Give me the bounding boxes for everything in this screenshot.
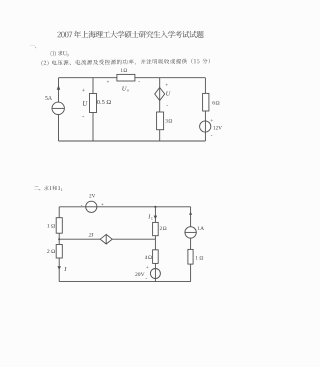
svg-text:-: - xyxy=(82,113,84,120)
svg-text:1A: 1A xyxy=(197,226,204,232)
svg-text:1 Ω: 1 Ω xyxy=(120,68,127,74)
svg-text:1 Ω: 1 Ω xyxy=(195,256,203,262)
svg-text:2V: 2V xyxy=(89,194,96,200)
svg-text:20V: 20V xyxy=(135,272,145,278)
svg-text:4 Ω: 4 Ω xyxy=(145,255,152,261)
svg-text:+: + xyxy=(101,202,104,208)
svg-text:0.5 Ω: 0.5 Ω xyxy=(97,99,112,106)
svg-text:2 Ω: 2 Ω xyxy=(47,249,55,255)
svg-text:+: + xyxy=(82,89,86,95)
svg-text:+: + xyxy=(165,82,168,88)
svg-text:o: o xyxy=(127,87,129,92)
svg-text:+: + xyxy=(210,118,213,124)
svg-text:12V: 12V xyxy=(213,126,222,132)
svg-text:-: - xyxy=(81,203,83,209)
svg-text:U: U xyxy=(166,90,171,97)
svg-text:6 Ω: 6 Ω xyxy=(212,100,219,106)
svg-text:1 Ω: 1 Ω xyxy=(47,224,55,230)
svg-text:-: - xyxy=(211,132,213,138)
svg-text:-: - xyxy=(138,79,140,85)
svg-text:+: + xyxy=(146,265,149,271)
svg-text:-: - xyxy=(145,276,147,282)
svg-text:-: - xyxy=(166,103,168,109)
svg-text:2 Ω: 2 Ω xyxy=(160,226,167,232)
svg-text:1: 1 xyxy=(151,217,153,221)
svg-text:+: + xyxy=(106,79,109,85)
svg-text:3 Ω: 3 Ω xyxy=(165,119,172,125)
svg-text:5A: 5A xyxy=(45,96,53,102)
